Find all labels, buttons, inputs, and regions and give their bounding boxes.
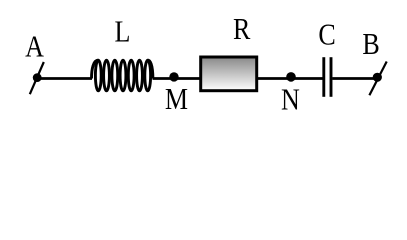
svg-text:C: C — [318, 18, 335, 53]
wire A to L — [37, 77, 92, 80]
wire L to M — [153, 77, 175, 80]
wire R to N — [258, 77, 291, 80]
terminal A — [30, 62, 44, 94]
node N — [286, 72, 296, 82]
wire M to R — [174, 77, 200, 80]
capacitor C — [324, 57, 331, 97]
svg-text:M: M — [165, 82, 188, 117]
svg-text:R: R — [233, 12, 251, 47]
terminal B — [369, 62, 386, 96]
resistor R — [201, 57, 257, 91]
inductor L — [92, 60, 153, 91]
svg-text:A: A — [25, 29, 44, 64]
wire C to B — [332, 77, 377, 80]
svg-text:N: N — [281, 82, 300, 117]
svg-text:L: L — [115, 15, 131, 50]
svg-text:B: B — [362, 27, 379, 62]
wire N to C — [291, 77, 323, 80]
node M — [169, 72, 178, 81]
